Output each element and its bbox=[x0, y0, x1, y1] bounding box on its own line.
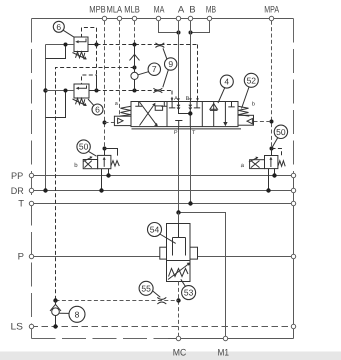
wire relief drain manifold x45 bbox=[45, 45, 47, 191]
svg-text:B: B bbox=[186, 96, 190, 102]
svg-text:LS: LS bbox=[11, 322, 24, 333]
svg-text:A: A bbox=[178, 5, 185, 16]
pilot wire lower horizontal y90.5 bbox=[89, 90, 97, 92]
valve 4 right pilot box bbox=[238, 115, 254, 125]
relief valve 6 no.1 bbox=[46, 28, 97, 60]
pilot wire vertical x96.8 between reliefs bbox=[96, 45, 98, 91]
svg-text:50: 50 bbox=[79, 142, 89, 152]
PP line bbox=[32, 175, 294, 177]
svg-text:MA: MA bbox=[154, 5, 165, 16]
callout 53 bbox=[182, 286, 196, 300]
pilot wire drop to valve 4 bbox=[171, 91, 173, 102]
wire MB to B bbox=[191, 21, 210, 33]
wire P to compensator bbox=[178, 213, 180, 224]
callout 4 bbox=[220, 75, 233, 88]
wire P to M1 bbox=[179, 213, 226, 339]
frame right border dashed upper bbox=[293, 19, 295, 176]
svg-text:MPA: MPA bbox=[264, 5, 279, 16]
svg-text:4: 4 bbox=[224, 77, 229, 87]
orifice 55 bbox=[157, 297, 166, 304]
valve 4 entry arrows bbox=[171, 98, 199, 101]
node MA-A junction bbox=[177, 31, 181, 35]
svg-text:6: 6 bbox=[56, 22, 61, 32]
orifice 9a bbox=[155, 43, 164, 48]
node relief 2 right bbox=[95, 89, 99, 93]
svg-text:53: 53 bbox=[184, 288, 194, 298]
svg-text:b: b bbox=[252, 102, 255, 108]
node LS-orifice junction bbox=[176, 298, 180, 302]
callout 6 (relief 1) bbox=[53, 21, 64, 32]
svg-text:MB: MB bbox=[206, 5, 216, 16]
callout 52 bbox=[244, 73, 258, 87]
callout 6 (relief 2) bbox=[92, 104, 103, 115]
pilot wire MPA to valve 4 right actuator bbox=[254, 121, 272, 123]
T line bbox=[32, 203, 294, 205]
node T junction bbox=[188, 201, 192, 205]
wire B down to valve 4 bbox=[190, 21, 192, 102]
svg-text:6: 6 bbox=[95, 105, 100, 115]
DR line bbox=[32, 190, 294, 192]
node relief 1 right bbox=[95, 43, 99, 47]
wire A down to valve 4 bbox=[178, 21, 180, 102]
node MPB valve b junction bbox=[103, 147, 107, 151]
node MLB mid junction bbox=[133, 66, 137, 70]
svg-text:PP: PP bbox=[11, 171, 23, 182]
pilot wire MPB down bbox=[104, 21, 106, 156]
svg-text:P: P bbox=[174, 130, 178, 136]
callout 7 bbox=[148, 63, 160, 75]
valve 4 left box symbols bbox=[135, 102, 167, 127]
svg-text:55: 55 bbox=[141, 283, 151, 293]
node MLB upper junction bbox=[133, 43, 137, 47]
svg-text:52: 52 bbox=[247, 75, 257, 85]
svg-text:MLB: MLB bbox=[124, 5, 140, 16]
svg-text:DR: DR bbox=[11, 186, 24, 197]
pilot wire MLB down bbox=[134, 21, 136, 45]
orifice 9b bbox=[153, 88, 162, 93]
pilot wire compensator to MC bbox=[178, 282, 180, 339]
check valve 7 bbox=[130, 45, 140, 91]
port circles bottom bbox=[176, 336, 180, 340]
frame top border bbox=[32, 18, 294, 20]
P line bbox=[32, 256, 294, 258]
pilot wire MPA down bbox=[271, 21, 273, 156]
node MPA valve a junction bbox=[270, 147, 274, 151]
callout 55 bbox=[139, 281, 153, 295]
valve b 50 bbox=[83, 149, 119, 193]
node relief 2 inlet bbox=[43, 88, 47, 92]
callout 8 bbox=[69, 306, 85, 322]
valve a 50 bbox=[249, 149, 285, 193]
wire MA to A bbox=[159, 21, 179, 33]
frame right border solid lower bbox=[293, 176, 295, 339]
pilot wire MLA down bbox=[119, 21, 121, 116]
pilot wire right drop to valve 4 bbox=[197, 45, 199, 102]
relief valve 6 no.2 bbox=[46, 75, 97, 118]
bottom gray band bbox=[0, 352, 341, 360]
node P corner junction bbox=[176, 210, 180, 214]
wire P below valve 4 bbox=[178, 127, 180, 213]
svg-text:A: A bbox=[174, 96, 178, 102]
svg-text:MC: MC bbox=[173, 348, 187, 359]
wire T below valve 4 bbox=[190, 127, 192, 204]
valve 4 left pilot box bbox=[114, 116, 131, 125]
valve 4 right spring bbox=[238, 106, 249, 116]
svg-text:7: 7 bbox=[152, 64, 157, 74]
port circles top bbox=[102, 16, 106, 20]
callout 50 (valve a) bbox=[274, 125, 287, 138]
callout 50 (valve b) bbox=[77, 140, 90, 153]
frame left border bbox=[31, 19, 33, 339]
LS line dashed bbox=[32, 326, 294, 328]
svg-text:50: 50 bbox=[276, 127, 286, 137]
valve 4 right box symbols bbox=[210, 102, 235, 127]
node MPB pilot branch bbox=[103, 121, 107, 125]
pilot wire horizontal y300.7 bbox=[56, 300, 179, 302]
callout 54 bbox=[148, 223, 162, 237]
compensator 54 bbox=[160, 224, 198, 282]
node relief manifold DR bbox=[43, 188, 47, 192]
svg-text:54: 54 bbox=[150, 225, 160, 235]
port circles left bbox=[29, 173, 33, 177]
node MLB lower junction bbox=[133, 89, 137, 93]
frame bottom border bbox=[32, 338, 169, 340]
node MPA pilot branch bbox=[270, 120, 274, 124]
svg-text:MPB: MPB bbox=[89, 5, 105, 16]
pilot wire MPB to valve 4 left actuator bbox=[105, 122, 115, 124]
svg-text:B: B bbox=[189, 5, 195, 16]
svg-text:M1: M1 bbox=[218, 348, 230, 359]
svg-text:T: T bbox=[18, 199, 24, 210]
valve 4 main body bbox=[131, 102, 241, 129]
valve 4 centre box symbols bbox=[169, 102, 200, 127]
svg-text:P: P bbox=[18, 252, 24, 263]
pilot wire enclosure y67.6 bbox=[56, 68, 135, 301]
callout 9 bbox=[165, 58, 177, 70]
port circles right bbox=[291, 173, 295, 177]
check valve 8 bbox=[50, 298, 61, 328]
svg-text:9: 9 bbox=[168, 59, 173, 69]
svg-text:8: 8 bbox=[75, 309, 80, 319]
valve 4 left spring bbox=[120, 106, 131, 116]
node MB-B junction bbox=[189, 31, 193, 35]
pilot wire upper horizontal y44.5 bbox=[88, 44, 97, 46]
svg-text:MLA: MLA bbox=[107, 5, 123, 16]
